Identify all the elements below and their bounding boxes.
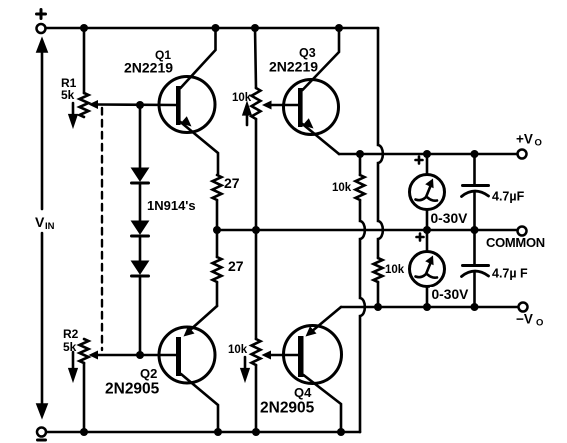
label 5k [61, 88, 75, 102]
svg-text:IN: IN [45, 221, 55, 232]
node (top rail / pot chain) [251, 24, 259, 32]
diode D3 (1N914) [132, 261, 149, 276]
wire (R2 bottom to bottom rail) [83, 363, 86, 432]
wire (top rail to R1) [83, 28, 86, 93]
label R2 [63, 327, 79, 341]
resistor 27 ohm upper [213, 175, 222, 200]
label 2N2219 (Q3) [269, 59, 318, 75]
pot adjustment arrow (up) [244, 105, 251, 126]
label 1N914s [147, 198, 196, 213]
svg-text:5k: 5k [61, 88, 75, 102]
label 27 (lower) [228, 258, 244, 274]
svg-text:27: 27 [228, 258, 244, 274]
wire (common to 10k pot lower) [255, 230, 258, 339]
svg-text:5k: 5k [63, 340, 77, 354]
capacitor C2 4.7uF [462, 230, 489, 307]
wire (top rail to 10k pot upper) [255, 28, 256, 88]
node (+Vo rail / C1) [471, 150, 479, 158]
node (common rail / pot chain) [252, 226, 260, 234]
svg-text:2N2905: 2N2905 [105, 381, 160, 398]
svg-text:O: O [536, 318, 543, 329]
label 4.7uF (C1) [492, 190, 525, 204]
wire (R2 wiper to Q2 base) [97, 354, 176, 357]
wire (common junction to 27 lower) [216, 230, 219, 257]
plus sign (meter M2 polarity) [417, 234, 424, 241]
node (+Vo rail / 10k bleed 1) [356, 150, 364, 158]
node (top rail / Q1 collector) [212, 24, 220, 32]
resistor 10k (bleed, +Vo to -input) [356, 175, 365, 200]
resistor R1 5k potentiometer [80, 93, 89, 117]
node (-Vo rail / C2) [471, 303, 479, 311]
10k pot wiper arrow (Q3) [262, 101, 272, 110]
resistor 10k (bleed, +input to -Vo) [374, 258, 383, 282]
svg-text:0-30V: 0-30V [432, 287, 470, 302]
svg-text:R2: R2 [63, 327, 79, 341]
svg-text:2N2905: 2N2905 [260, 400, 315, 417]
wire (pot wiper to Q3 base) [271, 104, 298, 107]
wire (D3 to Q2 base wire) [139, 277, 142, 355]
label 27 (upper) [224, 175, 240, 191]
svg-text:10k: 10k [385, 264, 405, 276]
wire (COMMON rail) [217, 229, 518, 232]
node (27 ohm junction on common) [213, 226, 221, 234]
svg-text:V: V [35, 214, 45, 230]
node (bottom rail / R2) [80, 428, 88, 436]
wire (pot wiper to Q4 base) [271, 354, 299, 357]
label 0-30V (M2) [430, 287, 474, 302]
minus sign (bottom input terminal polarity) [38, 439, 46, 442]
label 10k (Q3 pot) [232, 92, 252, 104]
svg-text:0-30V: 0-30V [431, 211, 469, 226]
wire (meter M1 to COMMON) [426, 210, 429, 231]
label 2N2905 (Q4) [260, 400, 315, 417]
transistor Q2 2N2905 [159, 306, 218, 432]
R2 wiper arrow [89, 351, 99, 360]
svg-text:2N2219: 2N2219 [124, 60, 173, 76]
wire (D2 to D3) [139, 237, 142, 261]
wire (-Vo rail) [341, 306, 518, 309]
label 10k (bleed 1) [332, 182, 352, 194]
wire (COMMON to meter M2) [426, 230, 429, 252]
label VIN [35, 214, 55, 232]
wire (R1 wiper to Q1 base) [97, 103, 176, 106]
wire (27 lower to Q2 emitter) [216, 282, 219, 306]
label -Vo [516, 312, 543, 329]
transistor Q1 2N2219 [159, 28, 218, 175]
Vin double arrow [38, 40, 47, 416]
node (-Vo rail / 10k bleed 2) [374, 303, 382, 311]
COMMON output terminal [518, 227, 527, 236]
resistor R2 5k potentiometer [80, 339, 89, 363]
wire (top rail: + input to right column) [46, 27, 379, 30]
svg-text:+V: +V [516, 132, 533, 147]
svg-text:O: O [535, 138, 542, 149]
node (bottom rail / pot chain) [252, 428, 260, 436]
node (top rail / Q3 collector) [335, 24, 343, 32]
pot adjustment arrow (down, Q4) [242, 357, 249, 379]
label Q1 [155, 48, 171, 62]
R1 adjustment arrow (down) [70, 103, 77, 125]
label R1 [61, 76, 77, 90]
label 2N2905 (Q2) [105, 381, 160, 398]
-Vo output terminal [519, 303, 528, 312]
diode D2 (1N914) [132, 221, 149, 236]
wire (+Vo to 10k) [359, 154, 362, 175]
node (COMMON rail / C1) [471, 226, 479, 234]
node (Q2 base / diode chain) [136, 351, 144, 359]
label 4.7uF (C2) [492, 267, 528, 281]
label Q3 [299, 46, 316, 60]
wire (10k pot lower to bottom rail) [255, 365, 258, 432]
capacitor C1 4.7uF [462, 154, 489, 230]
wire (+Vo to meter M1) [426, 154, 429, 175]
transistor Q4 2N2905 [284, 307, 342, 432]
meter M2 0-30V voltmeter [410, 252, 445, 287]
svg-text:27: 27 [224, 175, 240, 191]
resistor 27 ohm lower [213, 257, 222, 282]
label 5k (R2) [63, 340, 77, 354]
meter M1 0-30V voltmeter [410, 175, 445, 210]
diode D1 (1N914) [132, 168, 149, 183]
wire with hops (top rail right end down across +Vo and COMMON) [378, 28, 383, 258]
svg-text:−V: −V [516, 312, 533, 327]
wire (base wire to diode D1) [139, 105, 142, 168]
svg-text:10k: 10k [332, 182, 352, 194]
transistor Q3 2N2219 [284, 28, 340, 154]
svg-text:4.7µ F: 4.7µ F [492, 267, 528, 281]
resistor 10k potentiometer (Q4 base) [252, 339, 261, 365]
label 2N2219 (Q1) [124, 60, 173, 76]
R2 adjustment arrow (down) [70, 352, 77, 379]
label 10k (bleed 2) [385, 264, 405, 276]
svg-text:Q2: Q2 [140, 366, 157, 381]
label +Vo [516, 132, 542, 149]
wire (27 upper to common junction) [216, 200, 219, 230]
wire with hops (10k down across COMMON and -Vo to bottom rail) [360, 200, 365, 432]
10k pot wiper arrow (Q4) [262, 351, 272, 360]
svg-text:COMMON: COMMON [486, 235, 545, 250]
node (COMMON rail / meter M1) [423, 226, 431, 234]
svg-text:Q4: Q4 [294, 385, 312, 400]
top input terminal [37, 24, 46, 33]
label Q4 [294, 385, 312, 400]
label 10k (Q4 pot) [228, 344, 248, 356]
svg-text:2N2219: 2N2219 [269, 59, 318, 75]
wire (D1 to D2) [139, 184, 142, 221]
node (+Vo rail / meter M1) [423, 150, 431, 158]
wire (meter M2 to -Vo) [426, 287, 429, 308]
node (-Vo rail / meter M2) [423, 303, 431, 311]
wire (bottom rail: - input going right, turns up at x=360) [46, 431, 360, 434]
svg-text:4.7µF: 4.7µF [492, 190, 525, 204]
wire (10k pot upper to common) [255, 119, 258, 230]
plus sign (top input terminal polarity) [37, 10, 46, 19]
resistor 10k potentiometer (Q3 base) [252, 88, 261, 119]
label Q2 [140, 366, 157, 381]
svg-text:10k: 10k [232, 92, 252, 104]
plus sign (meter M1 polarity) [416, 157, 423, 164]
svg-text:10k: 10k [228, 344, 248, 356]
node (bottom rail / Q4 collector) [337, 428, 345, 436]
svg-text:1N914's: 1N914's [147, 198, 196, 213]
node (Q1 base / diode chain) [136, 101, 144, 109]
dashed gang line (R1-R2 mechanical coupling) [101, 108, 103, 350]
wire (10k to -Vo rail) [377, 282, 380, 307]
label 0-30V (M1) [429, 211, 473, 226]
node (bottom rail / Q2 collector) [214, 428, 222, 436]
bottom input terminal [37, 428, 46, 437]
wire (+Vo rail) [339, 153, 518, 156]
+Vo output terminal [518, 150, 527, 159]
node (top rail / R1) [80, 24, 88, 32]
R1 wiper arrow [89, 100, 99, 109]
label COMMON [486, 235, 545, 250]
